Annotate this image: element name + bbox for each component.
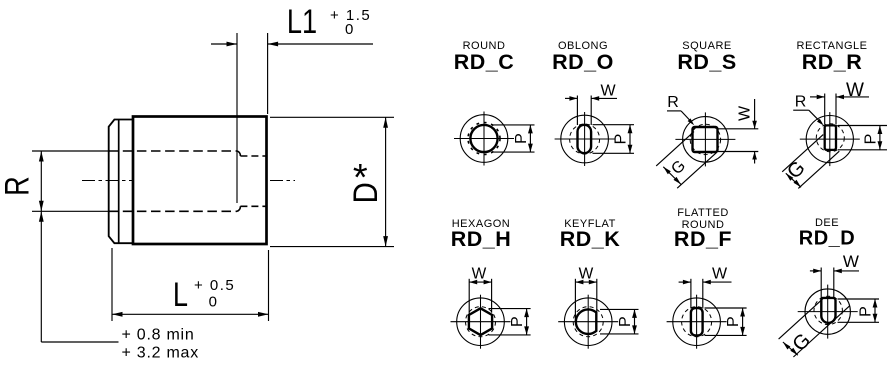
- RD_S square bore: [693, 127, 718, 152]
- svg-text:L: L: [173, 275, 188, 314]
- leader line to protrusion note: [39, 211, 119, 342]
- hidden line large bore top: [109, 150, 237, 152]
- RD_F centerlines: [667, 321, 727, 323]
- svg-text:*: *: [353, 157, 368, 199]
- cap inner edge line: [118, 120, 120, 244]
- RD_D dee bore: [821, 298, 835, 323]
- RD_D centerlines: [798, 311, 858, 313]
- RD_D dimension P: [838, 298, 880, 300]
- svg-text:0: 0: [209, 294, 217, 311]
- svg-text:R: R: [795, 94, 807, 111]
- svg-text:P: P: [863, 134, 880, 145]
- RD_S dashed circle: [690, 124, 720, 154]
- RD_D dashed circle: [814, 296, 842, 324]
- RD_D dimension G: [779, 299, 850, 357]
- hidden line large bore bottom: [109, 210, 237, 212]
- RD_K outer circle: [564, 298, 612, 346]
- svg-text:G: G: [783, 157, 810, 184]
- svg-text:+ 0.8 min: + 0.8 min: [122, 327, 195, 344]
- RD_R dimension P: [838, 125, 887, 127]
- hidden line small bore top: [240, 155, 266, 157]
- RD_K keyflat bore: [576, 309, 596, 334]
- svg-text:P: P: [617, 316, 634, 327]
- hidden line small bore bottom: [240, 205, 266, 207]
- svg-text:W: W: [472, 265, 487, 282]
- RD_R dimension W: [810, 80, 869, 124]
- RD_C dimension P: [492, 124, 535, 126]
- svg-text:RD_C: RD_C: [454, 50, 515, 74]
- RD_F dashed circle: [682, 307, 712, 337]
- svg-text:RD_H: RD_H: [451, 227, 512, 251]
- RD_C centerlines: [454, 138, 514, 140]
- RD_H dimension W: [469, 265, 491, 315]
- RD_C outer circle: [460, 115, 508, 163]
- RD_F dimension P: [705, 307, 747, 309]
- left cap outline: [109, 120, 133, 244]
- RD_S dimension G: [656, 132, 717, 189]
- RD_S corner radius R leader: [667, 94, 694, 125]
- RD_D dimension W: [810, 252, 859, 298]
- RD_C round bore: [470, 125, 497, 152]
- svg-text:W: W: [600, 83, 616, 100]
- svg-text:R: R: [0, 176, 36, 196]
- RD_H centerlines: [451, 321, 511, 323]
- RD_F outer circle: [673, 298, 721, 346]
- RD_H dimension P: [489, 308, 531, 310]
- RD_O centerlines: [555, 138, 615, 140]
- RD_O dashed circle: [570, 124, 600, 154]
- main body outline: [133, 117, 267, 245]
- RD_R outer circle: [806, 116, 853, 163]
- svg-text:W: W: [737, 105, 754, 121]
- dimension R (bore diameter): [0, 151, 110, 211]
- svg-text:P: P: [513, 133, 530, 144]
- svg-text:W: W: [712, 266, 728, 283]
- svg-text:W: W: [846, 80, 864, 101]
- svg-text:RD_K: RD_K: [560, 227, 621, 251]
- dimension L1 with tolerance +1.5/0: [211, 2, 373, 203]
- svg-text:P: P: [509, 316, 526, 327]
- RD_R corner radius R leader: [793, 94, 824, 126]
- dimension D* (outer diameter): [270, 117, 394, 246]
- RD_K dimension W: [575, 265, 596, 321]
- RD_H outer circle: [457, 298, 505, 346]
- RD_R centerlines: [800, 138, 860, 140]
- svg-text:RD_D: RD_D: [799, 228, 855, 250]
- svg-text:+ 0.5: + 0.5: [194, 277, 235, 294]
- bore step bottom curve: [237, 206, 241, 211]
- svg-text:P: P: [613, 134, 630, 145]
- RD_H dashed circle: [466, 307, 496, 337]
- RD_S outer circle: [683, 117, 729, 163]
- dimension L with tolerance +0.5/0: [112, 248, 269, 321]
- RD_R rectangle bore: [825, 125, 836, 149]
- RD_F dimension W: [679, 266, 732, 309]
- svg-text:FLATTED: FLATTED: [677, 207, 729, 219]
- RD_O oblong bore: [578, 125, 592, 153]
- RD_R dashed circle: [816, 124, 844, 152]
- svg-text:0: 0: [345, 21, 353, 38]
- centerline of roller: [82, 180, 295, 182]
- RD_O dimension W: [565, 83, 617, 126]
- RD_K dimension P: [600, 308, 639, 310]
- svg-text:W: W: [579, 265, 594, 282]
- RD_K centerlines: [558, 321, 618, 323]
- RD_R dimension G: [782, 135, 839, 189]
- svg-text:W: W: [843, 252, 859, 271]
- svg-text:R: R: [667, 94, 679, 111]
- svg-text:RD_O: RD_O: [552, 50, 614, 74]
- RD_O dimension P: [593, 124, 635, 126]
- svg-text:RD_R: RD_R: [802, 50, 863, 74]
- RD_C serration dashed circle: [468, 123, 500, 155]
- RD_O outer circle: [561, 115, 609, 163]
- RD_K dashed circle: [573, 307, 603, 337]
- RD_F flatted round bore: [691, 308, 703, 335]
- bore step top curve: [237, 151, 241, 156]
- svg-text:RD_S: RD_S: [677, 50, 736, 74]
- RD_H hexagon bore: [469, 308, 492, 335]
- RD_S centerlines: [675, 138, 735, 140]
- svg-text:P: P: [858, 306, 875, 317]
- svg-text:+ 3.2 max: + 3.2 max: [122, 345, 199, 362]
- RD_D outer circle: [805, 289, 850, 334]
- svg-text:L1: L1: [287, 2, 317, 41]
- svg-text:P: P: [725, 316, 742, 327]
- RD_S dimension W: [717, 99, 759, 164]
- svg-text:RD_F: RD_F: [674, 227, 732, 251]
